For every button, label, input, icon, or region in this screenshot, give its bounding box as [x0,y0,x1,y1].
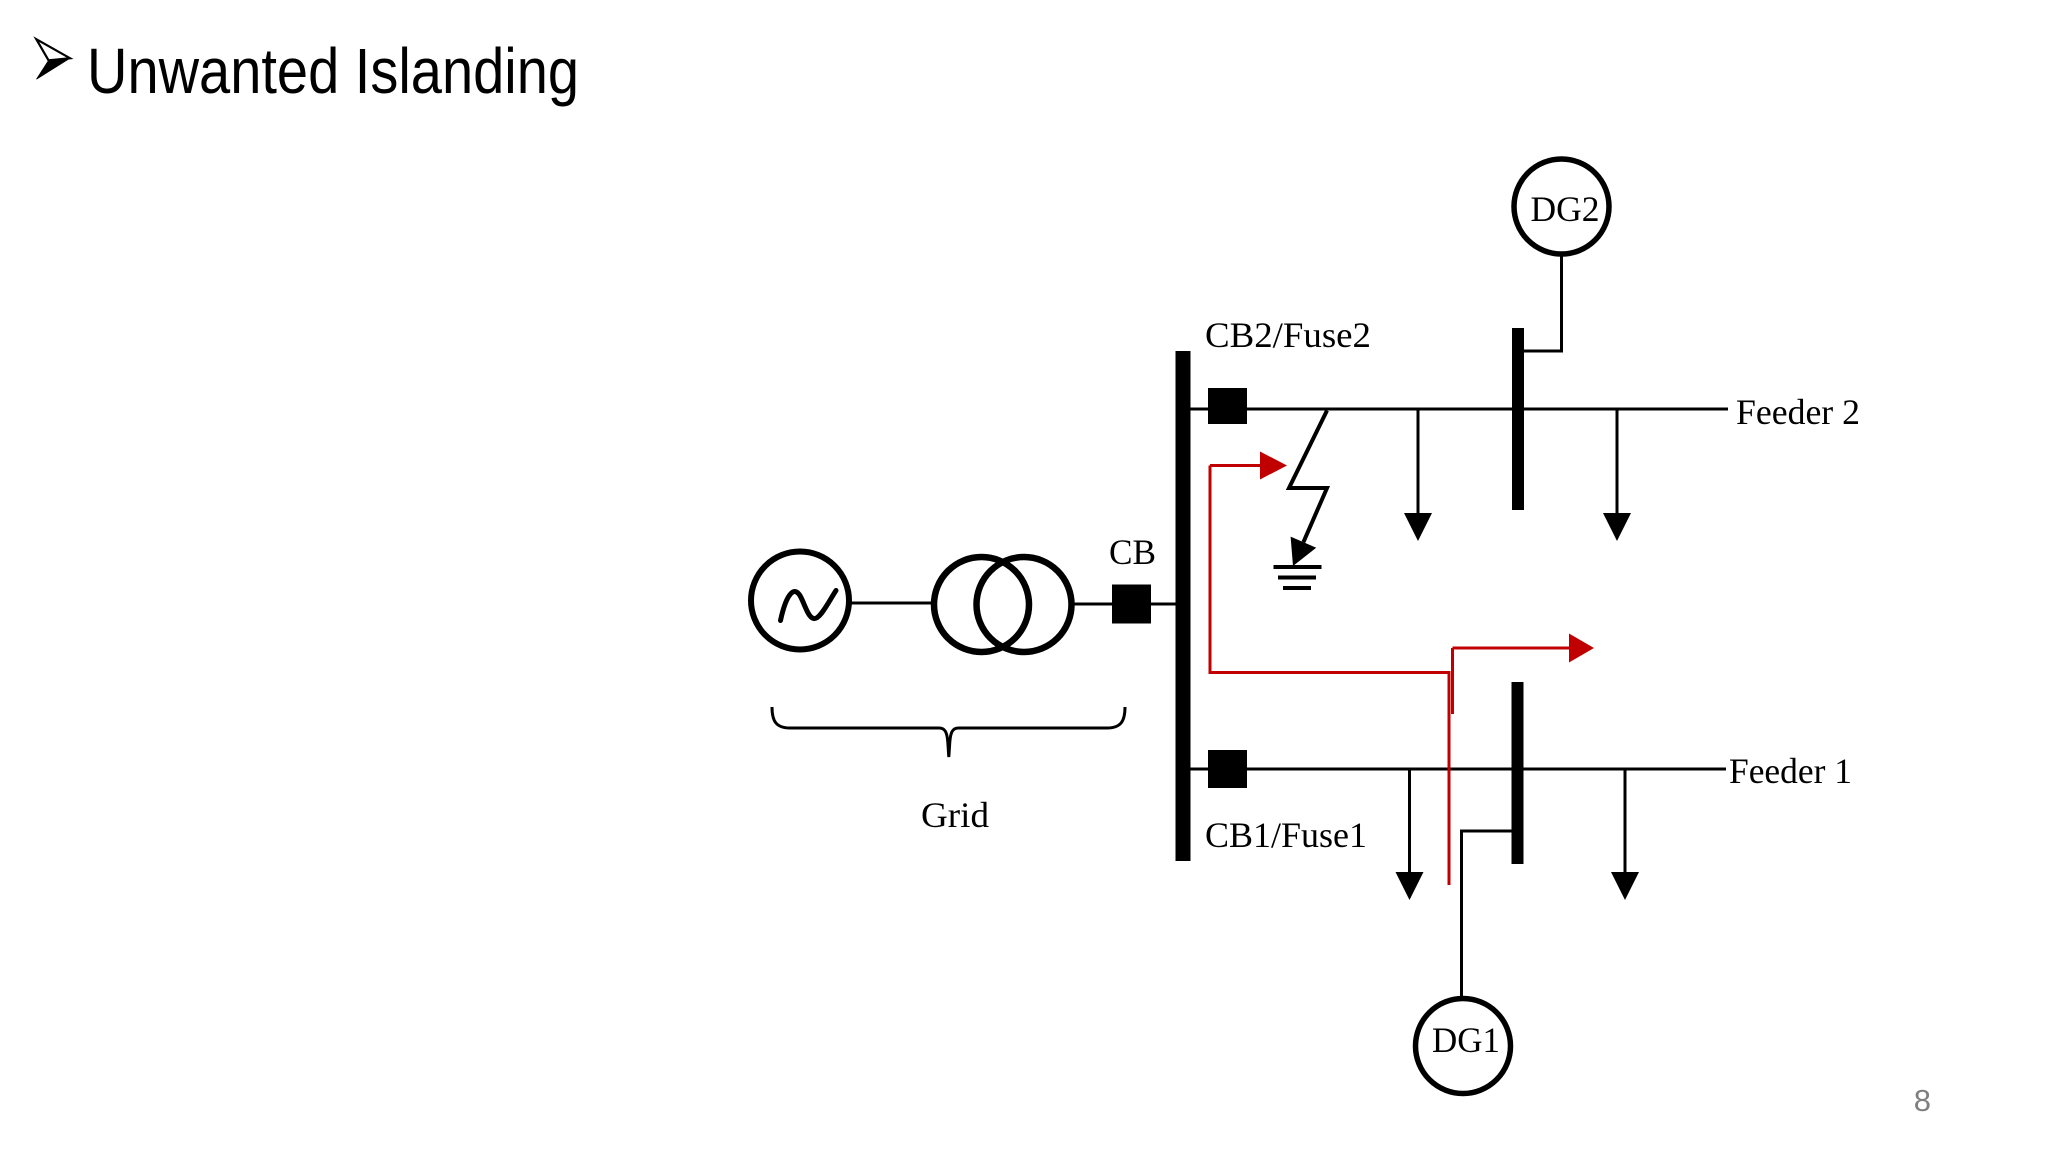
svg-text:Unwanted Islanding: Unwanted Islanding [87,35,579,107]
red fault current arrow upper [1210,452,1287,480]
red fault path: stub up [1451,648,1454,714]
wire: DG1 to DG1 bus [1462,831,1512,996]
svg-text:Feeder 2: Feeder 2 [1736,392,1860,432]
brace under grid [772,707,1125,757]
ac source G [751,552,849,650]
ground symbol [1274,567,1322,588]
feeder 2 line [1190,408,1728,411]
svg-text:CB1/Fuse1: CB1/Fuse1 [1205,815,1367,855]
DG2 bus [1512,328,1524,510]
svg-text:DG2: DG2 [1531,189,1600,229]
main bus [1176,351,1191,861]
title bullet arrowhead [36,39,70,79]
breaker CB2/Fuse2 [1208,388,1247,424]
load arrow feeder1 left [1396,769,1424,900]
wire: transformer to CB [1071,603,1113,606]
svg-text:Grid: Grid [921,795,989,835]
fault lightning bolt [1289,411,1327,567]
load arrow feeder2 right [1603,409,1631,541]
generator DG1 [1416,999,1511,1094]
circuit breaker CB [1112,585,1151,624]
red fault path: bus down [1210,466,1449,886]
svg-text:CB2/Fuse2: CB2/Fuse2 [1205,315,1371,355]
wire: CB to main bus [1151,603,1177,606]
wire: source to transformer [849,602,934,605]
transformer primary winding [934,557,1029,652]
generator DG2 [1514,159,1609,254]
svg-text:CB: CB [1109,532,1156,572]
wire: DG2 to DG2 bus [1524,254,1562,351]
load arrow feeder1 right [1611,769,1639,900]
load arrow feeder2 left [1404,409,1432,541]
svg-text:Feeder 1: Feeder 1 [1729,751,1852,791]
svg-text:8: 8 [1914,1083,1931,1118]
feeder 1 line [1190,768,1726,771]
breaker CB1/Fuse1 [1208,750,1247,788]
transformer secondary winding [977,557,1072,652]
svg-text:DG1: DG1 [1432,1020,1500,1060]
red island current arrow lower [1453,634,1595,663]
DG1 bus [1512,682,1524,864]
